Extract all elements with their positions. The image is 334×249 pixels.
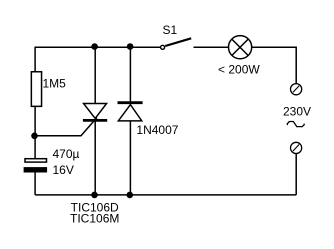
wire bottom terminal down to bottom wire [295, 154, 297, 195]
node junction dot bottom at diode anode [127, 192, 134, 199]
node junction dot top at SCR anode [91, 43, 98, 50]
svg-text:1N4007: 1N4007 [136, 123, 178, 137]
svg-text:470µ: 470µ [53, 147, 80, 161]
capacitor C1 470µ 16V [24, 147, 80, 177]
svg-text:S1: S1 [163, 23, 178, 37]
svg-text:230V: 230V [283, 105, 311, 119]
wire bottom horizontal [35, 194, 296, 196]
label TIC106D TIC106M [70, 200, 119, 225]
wire diode cathode vertical [129, 47, 131, 102]
wire SCR cathode vertical [94, 121, 96, 195]
svg-text:TIC106M: TIC106M [70, 211, 119, 225]
wire lamp to right corner and down to terminal [252, 47, 297, 83]
svg-text:1M5: 1M5 [43, 77, 67, 91]
wire switch to lamp [194, 46, 229, 48]
svg-text:16V: 16V [53, 163, 74, 177]
AC sine symbol [287, 122, 304, 127]
node junction dot top at diode cathode [127, 43, 134, 50]
wire top-left horizontal (node to switch) [35, 46, 161, 48]
wire resistor to capacitor node [34, 107, 36, 158]
diode D1 1N4007 (cathode bar + triangle) [118, 103, 179, 138]
wire left vertical upper (top wire to resistor) [34, 47, 36, 71]
thyristor U1 TIC106 (triangle + cathode bar) [83, 104, 107, 121]
node junction dot bottom at SCR cathode [91, 192, 98, 199]
node junction dot (gate tap) [31, 133, 38, 140]
terminal bottom (mains N) [291, 142, 302, 153]
terminal top (mains L) [291, 84, 302, 95]
wire SCR anode vertical [94, 47, 96, 103]
wire capacitor to bottom wire [34, 172, 36, 195]
wire gate (node to SCR gate) [35, 118, 97, 136]
resistor R1 1M5 [31, 72, 66, 107]
wire diode anode vertical [129, 121, 131, 195]
lamp LA1 [218, 36, 260, 77]
switch S1 [161, 23, 192, 49]
svg-text:< 200W: < 200W [218, 62, 260, 76]
